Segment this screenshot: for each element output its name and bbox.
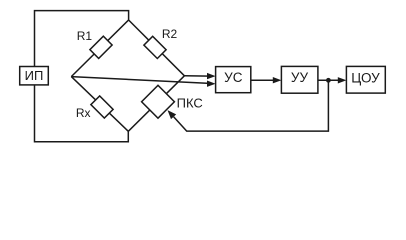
resistor Rx body [91, 96, 113, 118]
box УУ [281, 66, 318, 93]
svg-text:Rx: Rx [76, 106, 91, 120]
wire feedback from junction down and left [174, 80, 329, 131]
bridge arm top-right (node top to node right) [129, 20, 185, 76]
wire УУ to ЦОУ [318, 79, 341, 81]
svg-text:ПКС: ПКС [177, 96, 203, 111]
wire node right to УС upper input [184, 75, 209, 77]
bridge arm bottom-right (node right to node bottom) [128, 76, 184, 132]
bridge arm top-left (node top to node left) [71, 20, 128, 77]
arrowhead into УС lower input [207, 81, 216, 87]
resistor R1 body [90, 36, 112, 58]
svg-text:ЦОУ: ЦОУ [351, 70, 380, 85]
box ЦОУ [346, 66, 385, 93]
box УС [216, 67, 251, 93]
wire bottom: source loop lower run [35, 85, 129, 142]
svg-text:УС: УС [224, 70, 243, 85]
junction dot [326, 78, 331, 83]
ПКС diamond body [142, 85, 175, 118]
arrowhead into ПКС [168, 110, 177, 119]
box ИП [20, 67, 49, 85]
arrowhead into УС upper input [207, 73, 216, 79]
arrowhead into ЦОУ [338, 77, 347, 83]
wire node left to УС lower input [71, 77, 209, 84]
bridge arm bottom-left (node left to node bottom) [71, 77, 128, 132]
svg-text:УУ: УУ [291, 70, 309, 85]
arrowhead into УУ [273, 77, 282, 83]
resistor R2 body [144, 36, 166, 58]
svg-text:ИП: ИП [25, 68, 44, 83]
wire top: source loop upper run [35, 11, 129, 67]
svg-text:R1: R1 [77, 29, 93, 43]
wire УС to УУ [251, 79, 276, 81]
svg-text:R2: R2 [162, 27, 178, 41]
